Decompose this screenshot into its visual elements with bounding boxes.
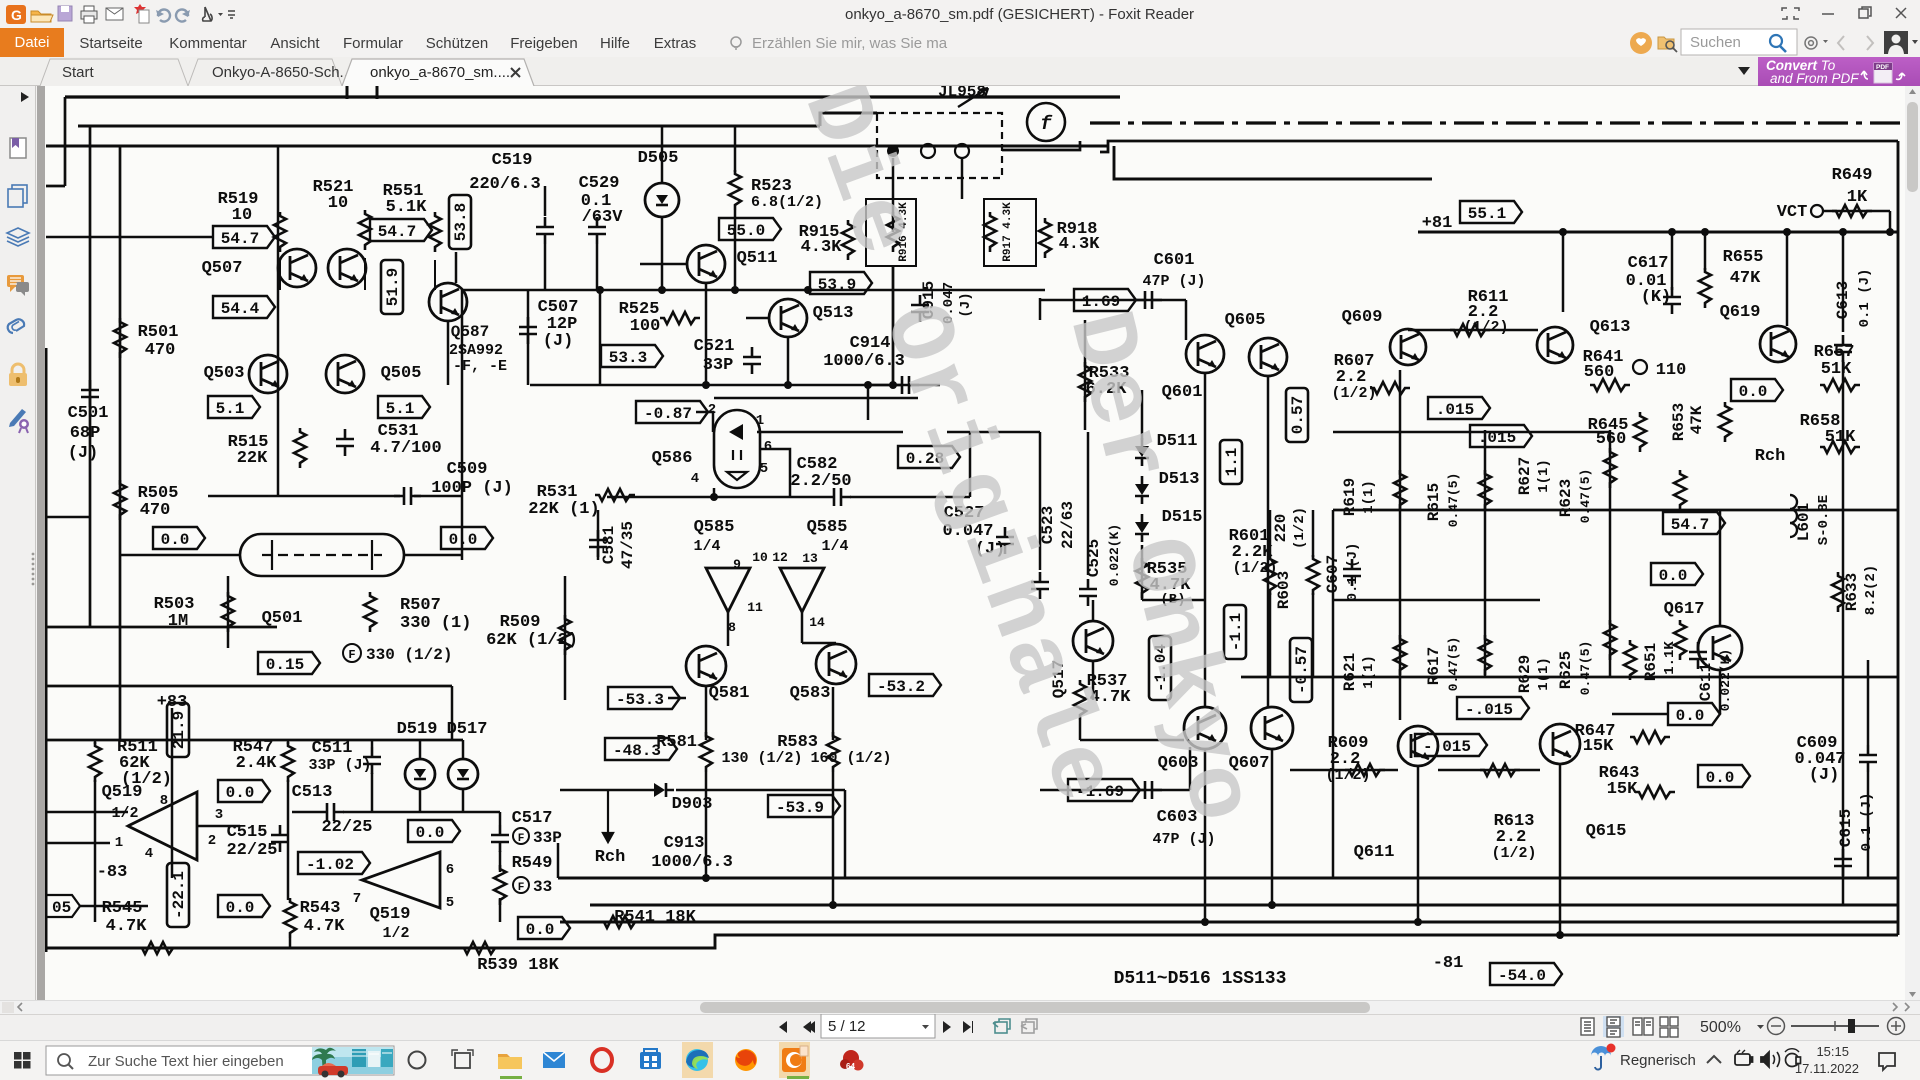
svg-text:17.11.2022: 17.11.2022 [1795, 1061, 1859, 1076]
svg-text:0.0: 0.0 [1739, 383, 1768, 401]
svg-text:R655: R655 [1723, 248, 1764, 267]
svg-text:Q501: Q501 [262, 609, 303, 628]
node 0.57 [1286, 388, 1308, 442]
wire [1141, 545, 1144, 600]
svg-text:2: 2 [208, 833, 216, 849]
resistor R917z [984, 212, 996, 252]
svg-text:R543: R543 [300, 899, 341, 918]
node 53.3 [601, 345, 663, 367]
node 0.0 c517 [408, 820, 460, 842]
svg-text:R917 4.3K: R917 4.3K [1002, 202, 1014, 262]
wire [1609, 430, 1612, 677]
resistor R651 [1624, 640, 1636, 680]
wire [462, 289, 1045, 292]
wire [64, 97, 67, 186]
wire [832, 772, 835, 905]
wire Rch arrow [603, 790, 613, 842]
transistor Q507a [278, 249, 316, 287]
svg-text:F: F [518, 833, 525, 845]
wire [46, 145, 1108, 148]
wire [346, 86, 349, 99]
wire [376, 86, 379, 99]
svg-text:100: 100 [630, 317, 661, 336]
svg-text:-1.02: -1.02 [306, 856, 354, 874]
svg-text:22/25: 22/25 [321, 818, 372, 837]
wire [462, 740, 465, 759]
node .015 b [1470, 425, 1532, 447]
svg-text:-54.0: -54.0 [1498, 967, 1546, 985]
resistor R641 [1590, 379, 1630, 391]
capacitor C519 [536, 217, 554, 244]
svg-text:53.3: 53.3 [609, 349, 647, 367]
svg-text:220/6.3: 220/6.3 [469, 175, 540, 194]
svg-text:(J): (J) [1809, 766, 1840, 785]
wire [1040, 299, 1186, 302]
wire [1719, 510, 1722, 626]
capacitor C521 [743, 347, 761, 374]
node -22.1 [167, 863, 189, 927]
capacitor C613 [1834, 335, 1852, 362]
junction [1701, 228, 1709, 236]
wire [46, 811, 128, 814]
wire [1867, 772, 1870, 878]
svg-text:Q503: Q503 [204, 364, 245, 383]
svg-text:15K: 15K [1583, 737, 1614, 756]
op-amp Q585a [706, 568, 750, 612]
wire [802, 642, 836, 645]
svg-text:0.0: 0.0 [416, 824, 445, 842]
svg-text:R623: R623 [1557, 479, 1575, 517]
wire [868, 384, 893, 387]
node -.015 a [1457, 697, 1529, 719]
svg-text:54.7: 54.7 [378, 223, 416, 241]
wire [1889, 211, 1892, 232]
svg-text:05: 05 [52, 899, 71, 917]
svg-text:Q605: Q605 [1225, 311, 1266, 330]
junction [1668, 228, 1676, 236]
resistor R623 [1674, 470, 1686, 510]
diode D903 [646, 783, 674, 797]
svg-text:22/25: 22/25 [226, 841, 277, 860]
junction [829, 901, 837, 909]
wire [461, 290, 464, 560]
wire [419, 789, 422, 812]
wire [1039, 298, 1042, 320]
svg-text:-83: -83 [97, 863, 128, 882]
svg-text:54.4: 54.4 [221, 300, 260, 318]
wire [596, 244, 599, 290]
wire [1271, 748, 1274, 905]
svg-text:S-0.8E: S-0.8E [1816, 495, 1832, 545]
node -1.02 [298, 852, 370, 874]
wire [557, 843, 560, 878]
wire [65, 95, 1120, 98]
wire [499, 812, 502, 825]
transistor Q615 [1540, 724, 1580, 764]
node 110 [1633, 360, 1647, 374]
svg-text:F: F [348, 648, 355, 662]
connector JL958 [877, 113, 1002, 178]
wire [1559, 764, 1562, 935]
svg-text:1: 1 [756, 413, 764, 429]
wire [714, 397, 918, 400]
wire [961, 158, 964, 199]
wire [227, 576, 230, 648]
svg-text:33P: 33P [533, 829, 562, 847]
wire [1267, 376, 1270, 707]
wire [832, 687, 835, 740]
resistor R916 [866, 199, 916, 266]
wire [892, 266, 895, 385]
transistor Q609 [1390, 329, 1426, 365]
wire [292, 811, 317, 814]
capacitor C601 [1135, 291, 1162, 309]
svg-text:(1/2): (1/2) [1292, 507, 1308, 549]
svg-text:Rch: Rch [595, 848, 626, 867]
node 53.9 [810, 272, 872, 294]
node 0.0 q519b [518, 917, 570, 939]
inductor L601 [1790, 495, 1797, 537]
svg-text:C613: C613 [1834, 281, 1852, 319]
transistor Q501 [240, 534, 404, 576]
wire [1312, 593, 1315, 677]
resistor R643 [1635, 786, 1675, 798]
wire [462, 789, 465, 812]
capacitor C509 [394, 487, 421, 505]
node -1.69 [1068, 779, 1140, 801]
svg-text:64: 64 [846, 1062, 855, 1071]
wire [46, 739, 463, 742]
wire [94, 740, 97, 744]
svg-text:D505: D505 [638, 149, 679, 168]
node 55.1 [1460, 201, 1522, 223]
svg-text:8: 8 [728, 620, 736, 635]
svg-text:D511~D516 1SS133: D511~D516 1SS133 [1114, 969, 1287, 989]
capacitor C607 [1343, 559, 1361, 586]
svg-text:C615: C615 [1837, 809, 1855, 847]
node -53.2 [869, 674, 941, 696]
capacitor C581 [589, 530, 607, 557]
svg-text:-F, -E: -F, -E [453, 358, 507, 375]
svg-text:R603: R603 [1275, 571, 1293, 609]
resistor R625 [1674, 620, 1686, 660]
svg-text:22K: 22K [237, 449, 268, 468]
svg-text:R501: R501 [138, 323, 179, 342]
capacitor C615 [1834, 849, 1852, 876]
wire [46, 626, 277, 629]
wire [46, 947, 432, 950]
svg-text:1.69: 1.69 [1082, 293, 1120, 311]
svg-text:330 (1): 330 (1) [400, 614, 471, 633]
wire [1823, 210, 1890, 213]
svg-text:1: 1 [115, 835, 123, 851]
wire [661, 218, 664, 290]
svg-text:R509: R509 [500, 613, 541, 632]
resistor R549 [494, 865, 506, 905]
svg-text:(1/2): (1/2) [1463, 319, 1508, 336]
svg-text:47P (J): 47P (J) [1152, 831, 1215, 848]
wire [640, 263, 687, 266]
wire [1114, 146, 1432, 179]
wire [590, 904, 1898, 907]
svg-text:55.1: 55.1 [1468, 205, 1506, 223]
svg-text:-0.57: -0.57 [1293, 646, 1311, 694]
svg-text:C617: C617 [1628, 254, 1669, 273]
svg-text:C581: C581 [600, 526, 618, 564]
junction [1556, 931, 1564, 939]
svg-text:51.9: 51.9 [384, 268, 402, 306]
transistor Q601c [1249, 338, 1287, 376]
svg-text:0.0: 0.0 [1676, 707, 1705, 725]
resistor R507 [364, 592, 376, 632]
wire [1612, 713, 1668, 716]
wire [867, 385, 870, 420]
capacitor C603 [1135, 781, 1162, 799]
wire [801, 612, 804, 643]
wire [734, 126, 737, 172]
wire [713, 488, 716, 497]
junction [1414, 918, 1422, 926]
resistor R523 [729, 170, 741, 210]
wire [499, 898, 502, 922]
node 54.7 [213, 226, 275, 248]
node 0.0 r545 [218, 895, 270, 917]
svg-text:-0.87: -0.87 [644, 405, 692, 423]
node 0.0 r657 [1731, 379, 1783, 401]
capacitor C517 [491, 825, 509, 852]
svg-text:160 (1/2): 160 (1/2) [810, 750, 891, 767]
wire [364, 258, 366, 290]
svg-text:-.015: -.015 [1423, 738, 1471, 756]
wire [46, 236, 212, 239]
wire [1719, 670, 1722, 714]
resistor R583 [827, 732, 839, 772]
capacitor C515 [271, 825, 289, 852]
svg-text:R649: R649 [1832, 166, 1873, 185]
svg-text:-53.3: -53.3 [616, 691, 664, 709]
svg-text:C601: C601 [1154, 251, 1195, 270]
node 51.9 [381, 260, 403, 314]
wire [447, 321, 450, 385]
svg-text:1/2: 1/2 [111, 805, 138, 822]
wire [208, 495, 400, 498]
transistor Q511 [687, 245, 725, 283]
resistor R611 [1450, 324, 1490, 336]
node 5.1 [208, 396, 260, 418]
resistor R633 [1832, 572, 1844, 612]
svg-text:Onkyo-A-8650-Sch...: Onkyo-A-8650-Sch... [212, 64, 352, 81]
svg-text:4: 4 [145, 846, 153, 862]
svg-text:5.1K: 5.1K [386, 198, 428, 217]
svg-text:0.0: 0.0 [526, 921, 555, 939]
wire [1204, 373, 1207, 707]
svg-text:Q513: Q513 [813, 304, 854, 323]
node 0.0 left [153, 527, 205, 549]
svg-text:R539 18K: R539 18K [477, 956, 559, 975]
wire [434, 260, 436, 290]
wire [1141, 390, 1144, 440]
wire [947, 431, 1040, 434]
svg-text:13: 13 [802, 551, 818, 566]
svg-text:L601: L601 [1795, 503, 1813, 541]
svg-text:Q613: Q613 [1590, 318, 1631, 337]
junction [1201, 918, 1209, 926]
node -53.3 [608, 687, 680, 709]
capacitor C914 [892, 376, 919, 394]
svg-text:68P: 68P [70, 424, 101, 443]
svg-text:C509: C509 [447, 460, 488, 479]
wire [676, 789, 845, 792]
node 0.28 [898, 446, 960, 468]
svg-text:JL958: JL958 [938, 86, 986, 101]
wire [757, 431, 903, 434]
svg-text:C529: C529 [579, 174, 620, 193]
wire [696, 412, 713, 432]
svg-text:Q519: Q519 [370, 905, 411, 924]
svg-text:47K: 47K [1730, 269, 1761, 288]
svg-text:5.1: 5.1 [386, 400, 415, 418]
svg-text:VCT: VCT [1777, 203, 1808, 222]
node .015 a [1428, 397, 1490, 419]
svg-text:14: 14 [809, 615, 825, 630]
svg-text:21.9: 21.9 [170, 711, 188, 749]
resistor R658 [1820, 441, 1860, 453]
svg-text:1/2: 1/2 [382, 925, 409, 942]
transistor Q619 [1760, 326, 1796, 362]
svg-text:+81: +81 [1422, 214, 1453, 233]
node -.015 b [1415, 734, 1487, 756]
svg-text:Q507: Q507 [202, 259, 243, 278]
svg-text:(1/2): (1/2) [1331, 385, 1376, 402]
resistor R918 [1039, 218, 1051, 258]
svg-text:C517: C517 [512, 809, 553, 828]
svg-text:4.7K: 4.7K [106, 917, 148, 936]
svg-text:100P (J): 100P (J) [431, 479, 513, 498]
svg-text:0.1 (J): 0.1 (J) [1859, 793, 1875, 852]
capacitor C525 [1079, 579, 1097, 606]
svg-text:5.1: 5.1 [216, 400, 245, 418]
resistor R629 [1604, 620, 1616, 660]
wire [746, 317, 769, 320]
wire [1332, 510, 1335, 878]
wire [287, 740, 290, 744]
svg-text:R541 18K: R541 18K [614, 908, 696, 927]
node 1.69 [1074, 289, 1136, 311]
wire [1704, 232, 1707, 270]
capacitor C511 [363, 747, 381, 774]
wire [1842, 232, 1845, 332]
svg-text:Q511: Q511 [737, 249, 778, 268]
svg-text:0.47(5): 0.47(5) [1578, 469, 1593, 524]
wire [1290, 769, 1398, 772]
svg-text:Start: Start [62, 64, 95, 81]
svg-text:11: 11 [747, 600, 763, 615]
node 21.9 [167, 703, 189, 757]
wire [599, 290, 602, 385]
wire [892, 266, 895, 385]
svg-text:47P (J): 47P (J) [1142, 273, 1205, 290]
svg-text:R633: R633 [1843, 573, 1861, 611]
wire [597, 510, 600, 560]
capacitor C582 [824, 488, 851, 506]
node 0.0 right [441, 527, 493, 549]
svg-text:C501: C501 [68, 404, 109, 423]
svg-text:C521: C521 [694, 337, 735, 356]
wire [560, 921, 1898, 924]
junction [702, 381, 710, 389]
svg-text:10: 10 [232, 206, 252, 225]
svg-text:15:15: 15:15 [1816, 1044, 1849, 1059]
wire [46, 842, 110, 845]
wire [277, 146, 280, 430]
transistor Q603 [1184, 707, 1226, 749]
resistor R647 [1630, 731, 1670, 743]
svg-text:Suchen: Suchen [1690, 34, 1741, 51]
diode D515 [1135, 514, 1149, 542]
svg-text:5 / 12: 5 / 12 [828, 1018, 866, 1035]
resistor R543 [284, 898, 296, 938]
label F330 [343, 644, 452, 664]
svg-text:Q587: Q587 [451, 323, 489, 341]
capacitor C617 [1663, 287, 1681, 314]
resistor R533 [1079, 362, 1091, 402]
svg-text:0.0: 0.0 [1659, 567, 1688, 585]
wire [197, 825, 240, 828]
wire [544, 186, 547, 216]
resistor R521 [359, 210, 371, 250]
svg-text:7: 7 [353, 891, 361, 907]
svg-text:R619: R619 [1341, 478, 1359, 516]
svg-text:0.47(5): 0.47(5) [1578, 641, 1593, 696]
transistor Q505 [326, 355, 364, 393]
junction [1839, 228, 1847, 236]
svg-text:-22.1: -22.1 [170, 871, 188, 919]
capacitor C609c [1859, 745, 1877, 772]
svg-text:2.4K: 2.4K [236, 754, 278, 773]
node 54.7 right [1663, 512, 1725, 534]
node 0.15 [258, 652, 320, 674]
svg-text:5: 5 [446, 895, 454, 911]
resistor R613 [1480, 764, 1520, 776]
node 53.8 [449, 195, 471, 249]
wire [527, 290, 530, 385]
wire [1087, 432, 1090, 575]
wire [1002, 141, 1080, 150]
wire [89, 126, 92, 627]
capacitor C915 [911, 295, 929, 322]
svg-text:onkyo_a-8670_sm....: onkyo_a-8670_sm.... [370, 64, 510, 81]
svg-text:D517: D517 [447, 720, 488, 739]
wire [1090, 121, 1905, 124]
wire [94, 780, 97, 922]
svg-text:(1/2): (1/2) [1325, 767, 1370, 784]
svg-text:33: 33 [533, 878, 552, 896]
svg-text:(J): (J) [68, 444, 99, 463]
wire [1408, 329, 1538, 332]
wire [530, 384, 940, 387]
wire [1084, 320, 1087, 430]
resistor R541 [600, 916, 640, 928]
transistor Q503 [249, 355, 287, 393]
svg-text:53.8: 53.8 [452, 203, 470, 241]
resistor R603 [1307, 555, 1319, 595]
wire [558, 877, 1898, 880]
svg-text:470: 470 [145, 341, 176, 360]
svg-text:10: 10 [752, 550, 768, 565]
wire [1080, 739, 1184, 742]
resistor R545 [138, 942, 178, 954]
label C517 value [513, 828, 562, 847]
